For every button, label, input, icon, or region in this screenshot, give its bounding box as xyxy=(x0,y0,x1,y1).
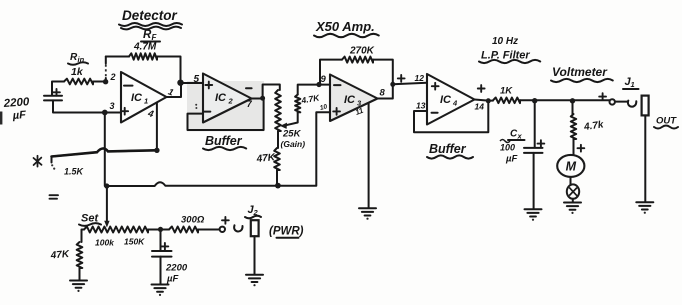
svg-text:8: 8 xyxy=(380,88,386,99)
svg-text:150K: 150K xyxy=(124,237,145,247)
svg-text:L.P. Filter: L.P. Filter xyxy=(481,50,530,62)
svg-text:300Ω: 300Ω xyxy=(181,215,205,226)
svg-text:100k: 100k xyxy=(95,238,115,248)
svg-text:9: 9 xyxy=(321,74,327,85)
svg-text:Set: Set xyxy=(81,213,99,225)
svg-text:Buffer: Buffer xyxy=(429,142,467,156)
svg-text:2200: 2200 xyxy=(165,263,188,274)
svg-text:2: 2 xyxy=(228,97,234,106)
svg-text:14: 14 xyxy=(475,102,485,112)
svg-text:270K: 270K xyxy=(349,46,375,57)
svg-text:Detector: Detector xyxy=(122,8,178,23)
svg-text:Voltmeter: Voltmeter xyxy=(552,65,608,79)
svg-text:2: 2 xyxy=(110,72,116,82)
svg-text:IC: IC xyxy=(131,92,143,104)
svg-text:47K: 47K xyxy=(255,152,276,165)
svg-text:12: 12 xyxy=(415,73,425,83)
svg-text:in: in xyxy=(78,55,85,64)
svg-text:5: 5 xyxy=(194,74,200,85)
svg-text:X50 Amp.: X50 Amp. xyxy=(315,19,375,34)
svg-text:25K: 25K xyxy=(282,129,302,140)
svg-text:47K: 47K xyxy=(49,249,70,262)
svg-text:2200: 2200 xyxy=(2,96,30,110)
svg-text:µF: µF xyxy=(505,154,517,165)
svg-text:13: 13 xyxy=(416,101,426,111)
svg-text:OUT: OUT xyxy=(656,116,677,127)
svg-text:IC: IC xyxy=(440,94,452,106)
svg-text:10 Hz: 10 Hz xyxy=(492,36,518,47)
svg-text:µF: µF xyxy=(166,274,178,285)
svg-text:x: x xyxy=(517,132,523,141)
svg-text:Buffer: Buffer xyxy=(205,134,243,148)
svg-text:M: M xyxy=(566,160,577,174)
svg-text:IC: IC xyxy=(215,92,227,104)
svg-text:µF: µF xyxy=(11,109,26,122)
svg-text:1k: 1k xyxy=(71,66,84,78)
svg-text:1K: 1K xyxy=(500,86,513,97)
svg-text:4: 4 xyxy=(452,99,458,108)
svg-text:4.7M: 4.7M xyxy=(133,42,157,53)
svg-text:100: 100 xyxy=(500,143,515,153)
svg-text:IC: IC xyxy=(344,94,356,106)
svg-text:(PWR): (PWR) xyxy=(269,226,304,238)
svg-text:(Gain): (Gain) xyxy=(281,139,306,149)
svg-text:1: 1 xyxy=(144,97,148,106)
svg-text:1.5K: 1.5K xyxy=(64,167,85,177)
svg-text:1: 1 xyxy=(631,80,635,89)
svg-text:2: 2 xyxy=(253,208,259,217)
svg-text:3: 3 xyxy=(110,101,115,111)
